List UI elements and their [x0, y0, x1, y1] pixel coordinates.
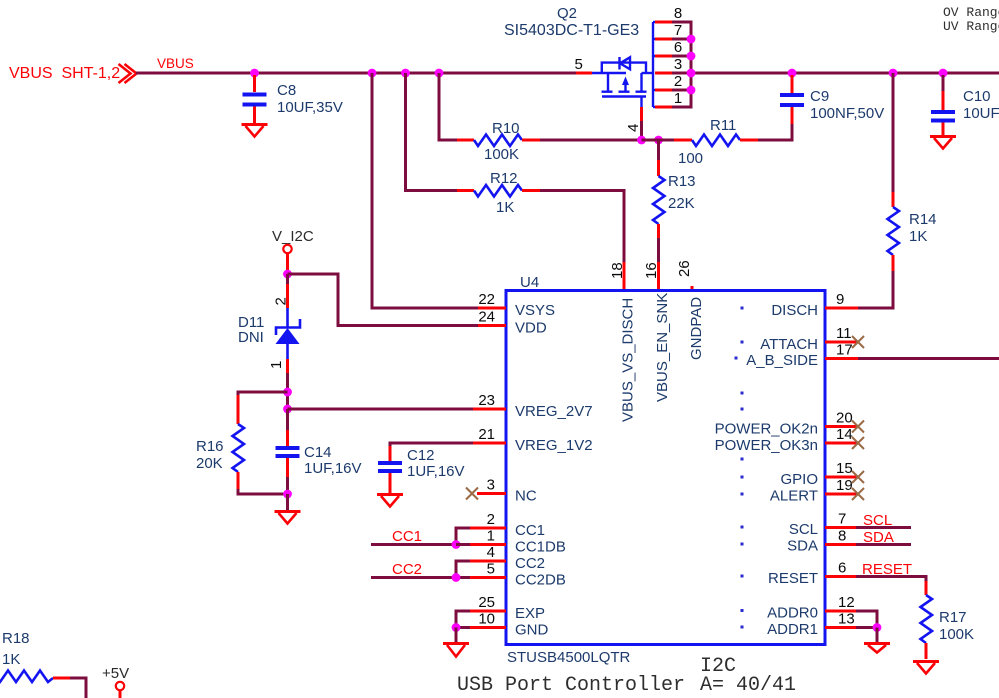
- net name VBUS: [157, 56, 194, 71]
- resistor R10: [457, 120, 540, 163]
- svg-text:16: 16: [643, 262, 660, 279]
- svg-text:100K: 100K: [939, 626, 974, 643]
- svg-text:POWER_OK2n: POWER_OK2n: [715, 421, 818, 438]
- U4 interior pin dots: [735, 307, 744, 629]
- note OV/UV range text: [943, 5, 999, 34]
- resistor R16: [196, 395, 244, 490]
- junction VBUS/R10: [435, 69, 444, 78]
- svg-text:VBUS SHT-1,2: VBUS SHT-1,2: [9, 65, 120, 82]
- svg-text:VREG_2V7: VREG_2V7: [515, 403, 593, 420]
- svg-text:CC1: CC1: [392, 528, 422, 545]
- wire VSYS branch: [372, 73, 478, 308]
- U4 left pin numbers: [478, 291, 495, 628]
- IC U4 box: [506, 274, 825, 666]
- svg-text:4: 4: [625, 124, 642, 132]
- svg-text:DNI: DNI: [238, 329, 264, 346]
- wire R16 branch: [238, 392, 288, 396]
- resistor R12: [457, 170, 540, 216]
- wire R16 bottom to C14 node: [238, 489, 288, 494]
- wire RESET to R17: [856, 577, 926, 584]
- ground (ADDR): [864, 644, 890, 653]
- svg-text:2: 2: [487, 511, 495, 528]
- off-page connector chevron: [119, 64, 137, 83]
- junction Q2 pin7: [687, 35, 696, 44]
- resistor R11: [674, 117, 758, 167]
- svg-text:7: 7: [838, 511, 846, 528]
- svg-text:+5V: +5V: [102, 665, 129, 682]
- wire D11 to R16/C14 node: [286, 373, 289, 409]
- ground (C14): [275, 512, 301, 524]
- svg-text:GNDPAD: GNDPAD: [688, 297, 705, 360]
- wire Q2 pin3 stub (red): [655, 72, 672, 75]
- power symbol +5V: [102, 665, 129, 698]
- svg-text:A= 40/41: A= 40/41: [700, 674, 796, 697]
- Q2 package pin ladder (blue bus bar): [653, 22, 657, 107]
- svg-text:R12: R12: [490, 170, 518, 187]
- svg-text:UV Range: UV Range: [943, 19, 999, 34]
- svg-text:17: 17: [836, 342, 853, 359]
- wire R11 to C9 bottom: [758, 123, 792, 140]
- svg-text:6: 6: [838, 560, 846, 577]
- svg-text:Q2: Q2: [557, 5, 577, 22]
- svg-text:C10: C10: [963, 88, 991, 105]
- svg-text:CC2: CC2: [515, 555, 545, 572]
- capacitor C12: [378, 446, 465, 493]
- svg-text:1: 1: [268, 361, 285, 369]
- svg-text:1K: 1K: [909, 228, 927, 245]
- U4 right pin numbers: [836, 291, 855, 628]
- svg-text:GPIO: GPIO: [780, 471, 818, 488]
- svg-text:CC1: CC1: [515, 522, 545, 539]
- svg-text:C9: C9: [810, 88, 829, 105]
- wire CC1: [371, 528, 470, 545]
- wire VREG_1V2 to C12: [390, 443, 473, 448]
- ground (C8): [242, 125, 268, 137]
- resistor R13: [653, 140, 696, 238]
- wire Q2 gate to R10/R11 node: [640, 121, 643, 140]
- svg-text:VBUS: VBUS: [157, 56, 194, 71]
- wire pin16 stub (red): [657, 262, 660, 290]
- svg-text:2: 2: [674, 73, 682, 90]
- svg-text:9: 9: [836, 291, 844, 308]
- capacitor C14: [276, 409, 362, 494]
- resistor R18: [0, 630, 70, 682]
- junction VREG_2V7 node: [283, 405, 292, 414]
- svg-text:100K: 100K: [484, 146, 519, 163]
- wire R13 to pin 16: [657, 238, 660, 262]
- junction VBUS/R12: [401, 69, 410, 78]
- svg-text:24: 24: [478, 309, 495, 326]
- ground (C10): [930, 137, 956, 149]
- svg-text:1: 1: [674, 90, 682, 107]
- svg-text:R16: R16: [196, 438, 224, 455]
- svg-text:VDD: VDD: [515, 320, 547, 337]
- svg-text:R10: R10: [492, 120, 520, 137]
- svg-text:5: 5: [487, 561, 495, 578]
- svg-text:C12: C12: [407, 447, 435, 464]
- wire node to R11: [642, 139, 675, 142]
- junction VBUS/R14: [889, 69, 898, 78]
- capacitor C10: [931, 75, 999, 135]
- junction ADDR node: [873, 623, 882, 632]
- svg-text:5: 5: [575, 56, 583, 73]
- svg-text:DISCH: DISCH: [771, 302, 818, 319]
- wire R12 to pin 18: [540, 191, 624, 263]
- svg-text:EXP: EXP: [515, 605, 545, 622]
- U4 left pin names: [515, 302, 593, 639]
- svg-text:22K: 22K: [668, 195, 695, 212]
- junction Q2 pin3: [687, 69, 696, 78]
- svg-text:19: 19: [836, 477, 853, 494]
- svg-text:C8: C8: [277, 82, 296, 99]
- transistor Q2 P-MOSFET symbol: [592, 57, 653, 107]
- svg-text:VBUS_EN_SNK: VBUS_EN_SNK: [654, 293, 671, 402]
- svg-text:R17: R17: [939, 609, 967, 626]
- svg-text:C14: C14: [304, 444, 332, 461]
- ground (C12): [377, 495, 403, 507]
- wire SDA: [856, 543, 911, 546]
- svg-text:ATTACH: ATTACH: [760, 336, 818, 353]
- svg-text:NC: NC: [515, 488, 537, 505]
- junction VBUS/C10: [939, 69, 948, 78]
- svg-text:10UF,35V: 10UF,35V: [963, 105, 999, 122]
- svg-text:POWER_OK3n: POWER_OK3n: [715, 437, 818, 454]
- U4 right pin stubs (red): [825, 308, 858, 628]
- wire pin26 stub (red): [691, 286, 694, 290]
- junction Q2 pin6: [687, 52, 696, 61]
- svg-text:100NF,50V: 100NF,50V: [810, 105, 884, 122]
- note I2C address: [700, 655, 796, 697]
- wire GND stub link: [456, 626, 470, 629]
- svg-text:18: 18: [609, 262, 626, 279]
- svg-text:GND: GND: [515, 622, 549, 639]
- svg-text:SCL: SCL: [789, 521, 818, 538]
- junction GND node: [452, 623, 461, 632]
- svg-text:1UF,16V: 1UF,16V: [304, 460, 362, 477]
- svg-text:4: 4: [487, 544, 495, 561]
- resistor R14: [888, 192, 937, 271]
- svg-text:CC2DB: CC2DB: [515, 572, 566, 589]
- svg-text:R18: R18: [2, 630, 30, 647]
- svg-text:26: 26: [676, 260, 693, 277]
- svg-text:U4: U4: [520, 274, 539, 291]
- junction VBUS/C9: [788, 69, 797, 78]
- junction R16 node: [283, 388, 292, 397]
- U4 left pin stubs (red): [470, 308, 506, 628]
- power symbol V_I2C: [272, 228, 314, 274]
- svg-text:1K: 1K: [2, 651, 20, 668]
- diode D11: [238, 274, 300, 373]
- Q2 pin numbers: [674, 5, 682, 107]
- svg-text:10: 10: [478, 611, 495, 628]
- junction V_I2C node: [283, 270, 292, 279]
- no-connect X marks on right pins: [852, 336, 864, 500]
- svg-text:OV Range: OV Range: [943, 5, 999, 20]
- svg-text:20: 20: [836, 410, 853, 427]
- junction CC2 node: [452, 573, 461, 582]
- wire node to ground: [286, 494, 289, 510]
- svg-text:22: 22: [478, 291, 495, 308]
- U4 top pin numbers (vertical): [609, 260, 693, 279]
- svg-text:13: 13: [838, 611, 855, 628]
- capacitor C8: [243, 75, 343, 123]
- svg-text:SDA: SDA: [787, 538, 818, 555]
- svg-text:25: 25: [478, 594, 495, 611]
- wire Q2 gate stub (red): [640, 107, 643, 121]
- wire Q2 pin5 stub (red): [576, 72, 592, 75]
- wire R12 branch vertical: [406, 73, 458, 191]
- junction VBUS/VSYS: [368, 69, 377, 78]
- svg-text:CC1DB: CC1DB: [515, 539, 566, 556]
- svg-text:2: 2: [273, 297, 290, 305]
- svg-text:ADDR1: ADDR1: [767, 621, 818, 638]
- wire R18 down: [70, 678, 86, 698]
- svg-text:11: 11: [836, 325, 852, 342]
- Q2 pin stubs (red): [655, 22, 672, 107]
- svg-text:ADDR0: ADDR0: [767, 605, 818, 622]
- wire V_I2C to VDD pin 24: [288, 274, 479, 326]
- svg-text:3: 3: [674, 56, 682, 73]
- svg-text:SI5403DC-T1-GE3: SI5403DC-T1-GE3: [504, 22, 639, 39]
- junction VBUS/C8: [250, 69, 259, 78]
- svg-text:RESET: RESET: [768, 570, 818, 587]
- wire CC2: [371, 561, 470, 578]
- net label VBUS SHT-1,2: [9, 65, 120, 82]
- wire R14 to DISCH pin 9: [858, 271, 893, 308]
- svg-text:10UF,35V: 10UF,35V: [277, 99, 343, 116]
- wire VBUS main bus: [136, 72, 999, 75]
- svg-text:A_B_SIDE: A_B_SIDE: [746, 352, 818, 369]
- transistor Q2 bulk arrow: [622, 77, 629, 86]
- transistor Q2 labels: [504, 5, 639, 39]
- svg-text:ALERT: ALERT: [770, 488, 818, 505]
- wire EXP elbow: [456, 611, 470, 628]
- svg-text:USB Port Controller: USB Port Controller: [457, 674, 685, 697]
- svg-text:VSYS: VSYS: [515, 302, 555, 319]
- U4 right pin names: [715, 302, 818, 638]
- no-connect X on NC pin 3: [466, 488, 478, 500]
- junction CC1 node: [452, 540, 461, 549]
- resistor R17: [921, 581, 975, 659]
- wire GND node to ground: [455, 628, 458, 643]
- junction C14/R16 bottom node: [283, 490, 292, 499]
- svg-text:R11: R11: [710, 117, 736, 134]
- svg-text:VREG_1V2: VREG_1V2: [515, 437, 593, 454]
- ground (EXP/GND): [443, 644, 469, 657]
- svg-text:8: 8: [674, 5, 682, 22]
- svg-text:12: 12: [838, 594, 855, 611]
- svg-text:CC2: CC2: [392, 561, 422, 578]
- wire CC1DB stub link: [456, 543, 470, 546]
- svg-text:STUSB4500LQTR: STUSB4500LQTR: [507, 649, 631, 666]
- svg-text:21: 21: [478, 426, 495, 443]
- svg-text:1K: 1K: [496, 199, 514, 216]
- wire R10 branch vertical: [439, 73, 457, 140]
- capacitor C9: [780, 75, 884, 124]
- svg-text:7: 7: [674, 22, 682, 39]
- wire ADDR1 to node: [856, 626, 877, 629]
- wire Q2 pin frame (maroon): [672, 22, 691, 107]
- svg-text:V_I2C: V_I2C: [272, 228, 314, 245]
- svg-text:R13: R13: [668, 173, 696, 190]
- svg-text:1UF,16V: 1UF,16V: [407, 463, 465, 480]
- svg-text:23: 23: [478, 392, 495, 409]
- svg-text:100: 100: [678, 150, 703, 167]
- wire pin18 stub (red): [623, 262, 626, 290]
- svg-text:14: 14: [836, 426, 853, 443]
- svg-text:1: 1: [487, 528, 495, 545]
- junction gate/R10 node: [637, 136, 646, 145]
- U4 top pin names (vertical): [620, 293, 706, 422]
- wire A_B_SIDE pin 17: [858, 357, 999, 360]
- svg-text:20K: 20K: [196, 455, 223, 472]
- svg-text:3: 3: [487, 477, 495, 494]
- wire ADDR0 elbow: [856, 611, 877, 628]
- wire SCL: [856, 526, 911, 529]
- junction R13 node: [654, 136, 663, 145]
- svg-text:15: 15: [836, 460, 853, 477]
- wire VREG_2V7 to pin 23: [288, 408, 474, 411]
- svg-text:6: 6: [674, 39, 682, 56]
- wire CC2DB stub link: [456, 576, 470, 579]
- wire R14 branch: [892, 73, 895, 192]
- svg-text:VBUS_VS_DISCH: VBUS_VS_DISCH: [620, 298, 637, 422]
- wire ADDR node to ground: [876, 628, 879, 643]
- wire R10 to gate node: [540, 139, 642, 142]
- svg-text:8: 8: [838, 528, 846, 545]
- svg-text:R14: R14: [909, 211, 937, 228]
- ground (R17): [913, 662, 939, 674]
- junction Q2 pin2: [687, 86, 696, 95]
